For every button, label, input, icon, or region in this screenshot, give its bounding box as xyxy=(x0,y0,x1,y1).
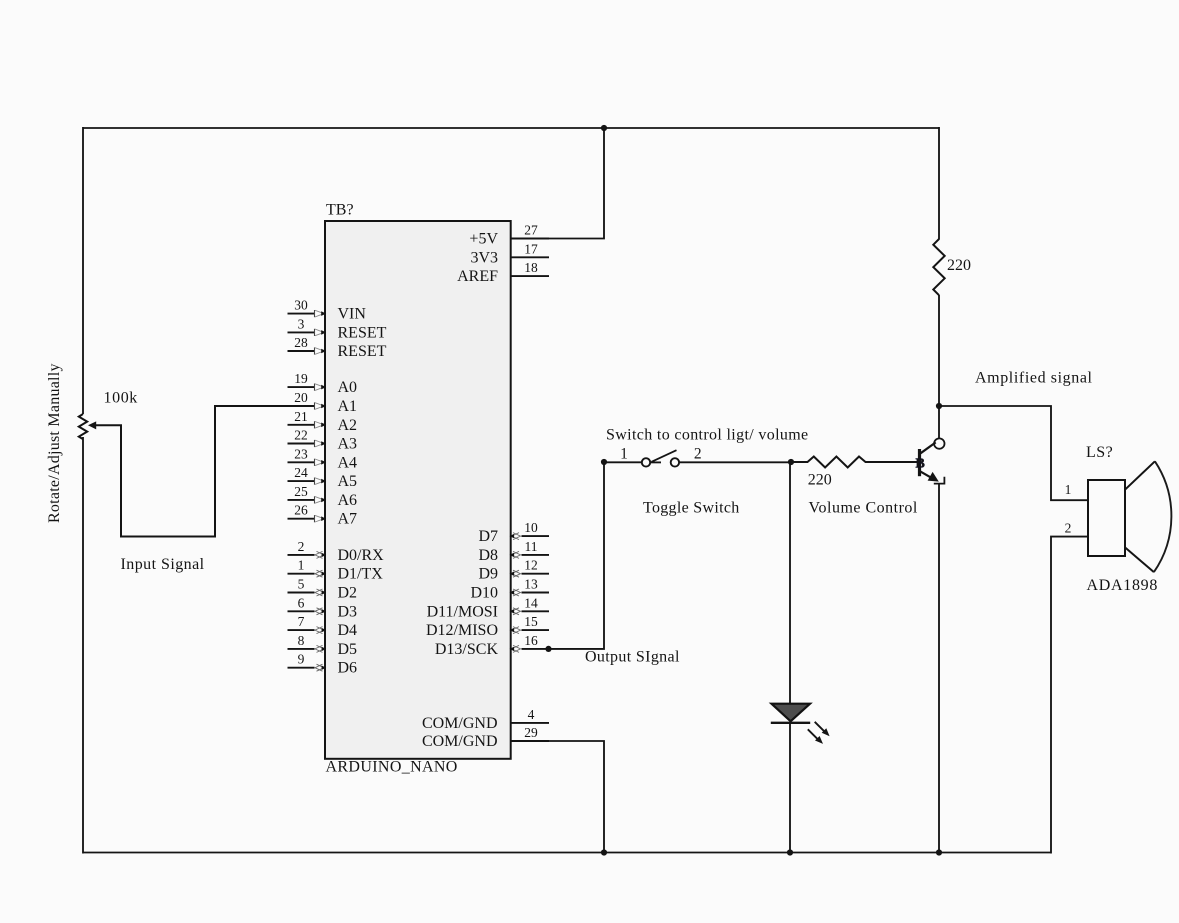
pin 10 D7 (right) xyxy=(478,520,549,545)
svg-text:2: 2 xyxy=(1065,521,1072,536)
transistor Q1 emitter diagonal xyxy=(921,472,933,479)
switch SW1 contact 1 xyxy=(642,458,661,466)
svg-text:A6: A6 xyxy=(338,492,358,509)
svg-text:13: 13 xyxy=(524,577,538,592)
speaker LS1 horn top xyxy=(1125,461,1155,489)
pin 26 A7 (left) xyxy=(288,503,358,528)
svg-text:Toggle Switch: Toggle Switch xyxy=(643,500,740,517)
svg-text:220: 220 xyxy=(947,257,971,274)
switch SW1 contact 2 xyxy=(671,458,679,466)
svg-text:D8: D8 xyxy=(478,547,498,564)
svg-text:D4: D4 xyxy=(338,622,358,639)
pin 7 D4 (left) xyxy=(288,614,358,639)
wire R1 to amplified node xyxy=(938,295,940,406)
pin 17 3V3 (right) xyxy=(470,241,549,266)
speaker LS1 horn bottom xyxy=(1125,547,1154,572)
wire LED cathode to ground rail xyxy=(789,723,791,853)
svg-text:23: 23 xyxy=(294,446,308,461)
junction ground / emitter drop xyxy=(936,849,942,855)
svg-text:27: 27 xyxy=(524,223,538,238)
svg-text:LS?: LS? xyxy=(1086,444,1113,461)
pin 29 COM/GND (right bottom) xyxy=(422,725,549,750)
transistor Q1 emitter pin mark xyxy=(934,477,945,484)
led D1 cathode bar xyxy=(771,722,810,724)
pin 24 A5 (left) xyxy=(288,465,358,490)
led D1 light arrow 1 xyxy=(815,722,830,736)
svg-text:29: 29 xyxy=(524,725,538,740)
resistor R1 220 body xyxy=(933,239,944,295)
svg-text:Rotate/Adjust Manually: Rotate/Adjust Manually xyxy=(46,363,63,523)
wire left rail lower (potentiometer to ground rail) xyxy=(82,437,84,854)
svg-text:5: 5 xyxy=(298,577,305,592)
pin 19 A0 (left) xyxy=(288,371,358,396)
label TB? xyxy=(326,202,354,219)
wire amplified node to speaker pin 1 xyxy=(939,406,1088,500)
svg-text:3V3: 3V3 xyxy=(470,249,498,266)
pin 30 VIN (left) xyxy=(288,298,367,323)
svg-text:3: 3 xyxy=(298,316,305,331)
pin 22 A3 (left) xyxy=(288,428,358,453)
pin 5 D2 (left) xyxy=(288,577,358,602)
svg-text:ADA1898: ADA1898 xyxy=(1087,577,1159,594)
svg-text:10: 10 xyxy=(524,520,538,535)
pin 1 D1/TX (left) xyxy=(288,558,384,583)
svg-text:Input Signal: Input Signal xyxy=(121,556,205,573)
svg-text:16: 16 xyxy=(524,633,538,648)
label Toggle Switch xyxy=(643,500,740,517)
wire speaker pin 2 to ground rail xyxy=(1051,537,1088,854)
pin 6 D3 (left) xyxy=(288,595,358,620)
svg-text:1: 1 xyxy=(1065,482,1072,497)
junction top rail / +5V drop xyxy=(601,125,607,131)
wire top rail (+5V net) xyxy=(83,127,939,129)
led D1 triangle xyxy=(772,704,811,722)
svg-text:D12/MISO: D12/MISO xyxy=(426,622,498,639)
label Rotate/Adjust Manually xyxy=(46,363,63,523)
svg-text:4: 4 xyxy=(528,707,535,722)
svg-text:19: 19 xyxy=(294,371,308,386)
svg-text:D0/RX: D0/RX xyxy=(338,547,385,564)
svg-text:RESET: RESET xyxy=(338,343,387,360)
svg-text:9: 9 xyxy=(298,652,305,667)
pin 15 D12/MISO (right) xyxy=(426,614,549,639)
svg-text:D3: D3 xyxy=(338,603,358,620)
ic U1 ARDUINO_NANO body xyxy=(325,221,511,759)
svg-text:8: 8 xyxy=(298,633,305,648)
label Volume Control xyxy=(809,500,918,517)
svg-text:Output SIgnal: Output SIgnal xyxy=(585,649,680,666)
svg-text:COM/GND: COM/GND xyxy=(422,715,498,732)
speaker pin label 1 xyxy=(1065,482,1072,497)
wire volume node to LED anode xyxy=(789,462,791,704)
svg-text:30: 30 xyxy=(294,298,308,313)
svg-text:1: 1 xyxy=(298,558,305,573)
svg-text:AREF: AREF xyxy=(457,268,498,285)
svg-text:D13/SCK: D13/SCK xyxy=(435,641,499,658)
speaker LS1 horn arc xyxy=(1154,461,1171,572)
wire output signal D13 to switch xyxy=(549,462,605,649)
junction volume node xyxy=(788,459,794,465)
svg-text:17: 17 xyxy=(524,241,538,256)
svg-text:A4: A4 xyxy=(338,454,358,471)
svg-text:21: 21 xyxy=(294,409,308,424)
svg-text:D6: D6 xyxy=(338,660,358,677)
label 220 volume xyxy=(808,472,832,489)
svg-text:15: 15 xyxy=(524,614,538,629)
resistor R2 220 (volume) with leads xyxy=(791,457,918,468)
label LS? xyxy=(1086,444,1113,461)
svg-text:2: 2 xyxy=(298,539,305,554)
svg-text:26: 26 xyxy=(294,503,308,518)
transistor Q1 base label B xyxy=(916,457,925,472)
svg-text:14: 14 xyxy=(524,595,538,610)
switch pin label 1 xyxy=(620,445,628,462)
svg-text:12: 12 xyxy=(524,558,538,573)
svg-text:A2: A2 xyxy=(338,417,358,434)
svg-text:D5: D5 xyxy=(338,641,358,658)
label ADA1898 xyxy=(1087,577,1159,594)
pin 23 A4 (left) xyxy=(288,446,358,471)
label Output SIgnal xyxy=(585,649,680,666)
svg-text:220: 220 xyxy=(808,472,832,489)
junction switch input node xyxy=(601,459,607,465)
potentiometer RV1 wiper arrow xyxy=(88,421,96,429)
svg-text:D2: D2 xyxy=(338,585,358,602)
label Input Signal xyxy=(121,556,205,573)
pin 9 D6 (left) xyxy=(288,652,358,677)
svg-text:20: 20 xyxy=(294,390,308,405)
svg-text:25: 25 xyxy=(294,484,308,499)
pin 25 A6 (left) xyxy=(288,484,358,509)
pin 13 D10 (right) xyxy=(470,577,549,602)
pin 2 D0/RX (left) xyxy=(288,539,385,564)
svg-text:6: 6 xyxy=(298,595,305,610)
wire wiper to A1 pin xyxy=(96,406,288,537)
pin 28 RESET (left) xyxy=(288,335,387,360)
svg-text:COM/GND: COM/GND xyxy=(422,733,498,750)
wire emitter down to ground rail xyxy=(938,484,940,853)
transistor Q1 collector circle xyxy=(934,438,944,448)
svg-text:24: 24 xyxy=(294,465,308,480)
junction ground / LED drop xyxy=(787,849,793,855)
transistor Q1 collector diagonal xyxy=(921,442,936,453)
svg-text:2: 2 xyxy=(694,445,702,462)
svg-text:A5: A5 xyxy=(338,473,358,490)
transistor Q1 base bar xyxy=(918,449,921,476)
label Switch to control ligt/ volume xyxy=(606,427,808,444)
pin 11 D8 (right) xyxy=(478,539,549,564)
svg-text:Volume Control: Volume Control xyxy=(809,500,918,517)
wire switch to volume node xyxy=(679,461,791,463)
svg-text:B: B xyxy=(916,457,925,472)
wire left rail upper (to potentiometer) xyxy=(82,127,84,414)
svg-text:28: 28 xyxy=(294,335,308,350)
svg-text:D9: D9 xyxy=(478,566,498,583)
label 220 top right xyxy=(947,257,971,274)
svg-text:D10: D10 xyxy=(470,585,498,602)
svg-text:Switch to control ligt/ volume: Switch to control ligt/ volume xyxy=(606,427,808,444)
potentiometer RV1 100k body xyxy=(79,414,87,439)
label Amplified signal xyxy=(975,370,1093,387)
svg-text:22: 22 xyxy=(294,428,308,443)
svg-text:D1/TX: D1/TX xyxy=(338,566,384,583)
svg-text:100k: 100k xyxy=(104,390,138,407)
label 100k xyxy=(104,390,138,407)
pin 12 D9 (right) xyxy=(478,558,549,583)
label ARDUINO_NANO xyxy=(326,759,458,776)
pin 14 D11/MOSI (right) xyxy=(427,595,549,620)
junction D13/SCK output xyxy=(545,646,551,652)
wire top rail to R1 xyxy=(938,127,940,240)
svg-text:A7: A7 xyxy=(338,511,358,528)
pin 27 +5V (right) xyxy=(469,223,549,248)
speaker LS1 body xyxy=(1088,480,1125,556)
wire collector up to amplified node xyxy=(938,406,940,439)
svg-text:D7: D7 xyxy=(478,528,498,545)
svg-text:18: 18 xyxy=(524,260,538,275)
svg-text:7: 7 xyxy=(298,614,305,629)
speaker pin label 2 xyxy=(1065,521,1072,536)
led D1 light arrow 2 xyxy=(808,729,823,744)
pin 3 RESET (left) xyxy=(288,316,387,341)
wire bottom ground rail xyxy=(83,852,1051,854)
pin 18 AREF (right) xyxy=(457,260,549,285)
wire +5V pin to top rail xyxy=(549,128,604,239)
pin 4 COM/GND (right bottom) xyxy=(422,707,549,732)
switch SW1 lever xyxy=(652,450,677,462)
wire switch input stub xyxy=(604,461,641,463)
pin 20 A1 (left) xyxy=(288,390,358,415)
svg-text:A3: A3 xyxy=(338,436,358,453)
svg-text:A0: A0 xyxy=(338,379,358,396)
svg-text:+5V: +5V xyxy=(469,231,498,248)
svg-text:VIN: VIN xyxy=(338,306,367,323)
pin 16 D13/SCK (right) xyxy=(435,633,549,658)
pin 21 A2 (left) xyxy=(288,409,358,434)
wire COM/GND-29 to ground rail xyxy=(511,741,604,853)
svg-text:11: 11 xyxy=(525,539,538,554)
svg-text:Amplified signal: Amplified signal xyxy=(975,370,1093,387)
svg-text:ARDUINO_NANO: ARDUINO_NANO xyxy=(326,759,458,776)
switch pin label 2 xyxy=(694,445,702,462)
junction ground / COM-GND drop xyxy=(601,849,607,855)
junction amplified signal node xyxy=(936,403,942,409)
pin 8 D5 (left) xyxy=(288,633,358,658)
transistor Q1 emitter arrow xyxy=(928,472,939,482)
svg-text:A1: A1 xyxy=(338,398,358,415)
svg-text:TB?: TB? xyxy=(326,202,354,219)
svg-text:RESET: RESET xyxy=(338,324,387,341)
svg-text:D11/MOSI: D11/MOSI xyxy=(427,603,498,620)
svg-text:1: 1 xyxy=(620,445,628,462)
